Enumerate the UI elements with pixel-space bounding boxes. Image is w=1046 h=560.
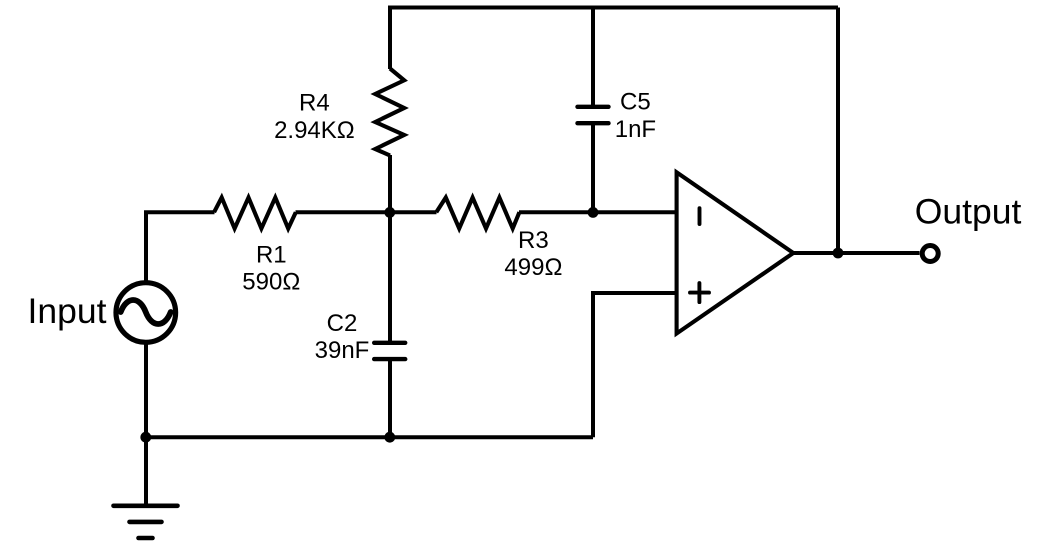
wire top feedback rail xyxy=(390,8,838,10)
op-amp U1 xyxy=(677,172,794,333)
wire R3 to op-amp inverting input xyxy=(519,210,677,214)
node C junction dot (C2 to ground rail) xyxy=(384,432,395,443)
label R1 value xyxy=(242,241,300,295)
resistor R3 xyxy=(436,198,519,229)
svg-text:1nF: 1nF xyxy=(615,116,656,143)
svg-text:R3: R3 xyxy=(518,227,549,254)
capacitor C2 top lead xyxy=(388,212,392,341)
capacitor C2 bottom lead xyxy=(388,361,392,437)
label R4 value xyxy=(274,90,355,144)
wire op-amp output xyxy=(792,251,920,255)
AC source V1 xyxy=(116,283,176,343)
ground xyxy=(114,506,178,538)
label R3 value xyxy=(504,227,562,281)
output terminal xyxy=(922,246,938,262)
svg-text:590Ω: 590Ω xyxy=(242,268,300,295)
wire bottom rail xyxy=(146,435,593,439)
label C5 value xyxy=(615,89,656,143)
svg-text:Input: Input xyxy=(28,291,107,331)
svg-text:C2: C2 xyxy=(327,310,358,337)
wire input to R1 xyxy=(146,212,215,281)
wire R4 bottom lead xyxy=(388,155,392,212)
wire ground lead xyxy=(144,437,148,506)
node B junction dot (inverting input node) xyxy=(588,207,599,218)
ground junction dot xyxy=(140,432,151,443)
svg-text:39nF: 39nF xyxy=(315,337,370,364)
wire feedback vertical drop to output node xyxy=(836,8,840,254)
capacitor C5 top lead xyxy=(591,8,595,106)
capacitor C2 xyxy=(374,343,405,359)
wire non-inverting input riser xyxy=(593,293,677,437)
wire R1 to node A xyxy=(296,210,437,214)
label C2 value xyxy=(315,310,370,364)
wire source bottom lead xyxy=(144,343,148,437)
svg-text:2.94KΩ: 2.94KΩ xyxy=(274,117,355,144)
wire R4 top lead xyxy=(388,8,392,70)
svg-text:C5: C5 xyxy=(620,89,651,116)
svg-text:R4: R4 xyxy=(299,90,330,117)
capacitor C5 bottom lead xyxy=(591,125,595,212)
output node junction dot xyxy=(833,248,844,259)
node A junction dot xyxy=(384,207,395,218)
capacitor C5 xyxy=(578,107,609,123)
resistor R4 xyxy=(375,69,404,156)
svg-text:Output: Output xyxy=(915,192,1022,232)
svg-text:R1: R1 xyxy=(256,241,287,268)
svg-text:499Ω: 499Ω xyxy=(504,254,562,281)
resistor R1 xyxy=(214,198,296,229)
